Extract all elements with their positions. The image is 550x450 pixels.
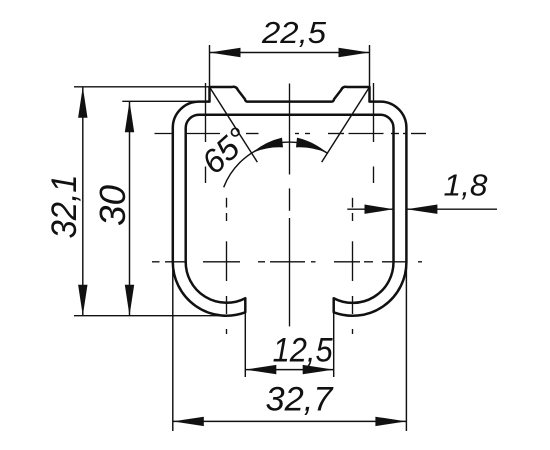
arrow 22.5 left	[210, 48, 241, 57]
svg-text:1,8: 1,8	[444, 168, 489, 203]
extension line 32.7 right	[405, 262, 407, 431]
svg-text:32,1: 32,1	[45, 175, 84, 239]
dimension line 22.5	[210, 52, 370, 54]
centerline vertical lower-right	[352, 198, 354, 334]
svg-text:12,5: 12,5	[273, 332, 334, 370]
centerline horizontal lower	[152, 261, 422, 263]
arrow 30 bottom	[125, 285, 134, 316]
extension line bottom shared by 32.1 and 30	[74, 315, 224, 317]
centerline vertical upper-left	[205, 83, 207, 183]
arrow 30 top	[125, 101, 134, 132]
arrow 1.8 inner	[365, 205, 394, 214]
arrow 12.5 right	[303, 365, 334, 374]
dimension line 32.1	[82, 87, 84, 316]
arrow 32.1 top	[78, 87, 87, 118]
arrow 65 left	[252, 138, 283, 154]
V-notch dimension line left	[210, 87, 258, 162]
centerline horizontal upper	[155, 133, 427, 135]
arrow 32.1 bottom	[78, 285, 87, 316]
arrow 12.5 left	[245, 365, 276, 374]
65deg dimension arc	[224, 142, 328, 187]
extension line 22.5 left	[209, 45, 211, 87]
arrow 32.7 left	[173, 417, 204, 426]
extension line 32.7 left	[172, 262, 174, 431]
arrow 32.7 right	[375, 417, 406, 426]
dimension line 1.8 inner tail	[347, 208, 393, 210]
dimension line 30	[129, 101, 131, 315]
extension line 32.1 top	[74, 86, 209, 88]
svg-text:30: 30	[92, 185, 133, 226]
dimension line 1.8 outer tail	[406, 208, 497, 210]
extension line 22.5 right	[369, 45, 371, 87]
V-notch dimension line right	[322, 87, 370, 162]
rail profile outline	[173, 87, 407, 316]
dimension line 32.7	[173, 420, 407, 422]
extension line 30 top	[122, 100, 195, 102]
centerline vertical lower-left	[226, 198, 228, 334]
arrow 1.8 outer	[406, 205, 437, 214]
arrow 22.5 right	[339, 48, 370, 57]
arrow 65 right	[296, 138, 327, 154]
centerline vertical center	[289, 84, 291, 327]
svg-text:32,7: 32,7	[266, 381, 334, 419]
centerline vertical upper-right	[373, 83, 375, 183]
dimension line 12.5	[245, 369, 333, 371]
extension line 12.5 right	[333, 312, 335, 377]
extension line 12.5 left	[244, 312, 246, 377]
svg-text:22,5: 22,5	[261, 15, 327, 50]
